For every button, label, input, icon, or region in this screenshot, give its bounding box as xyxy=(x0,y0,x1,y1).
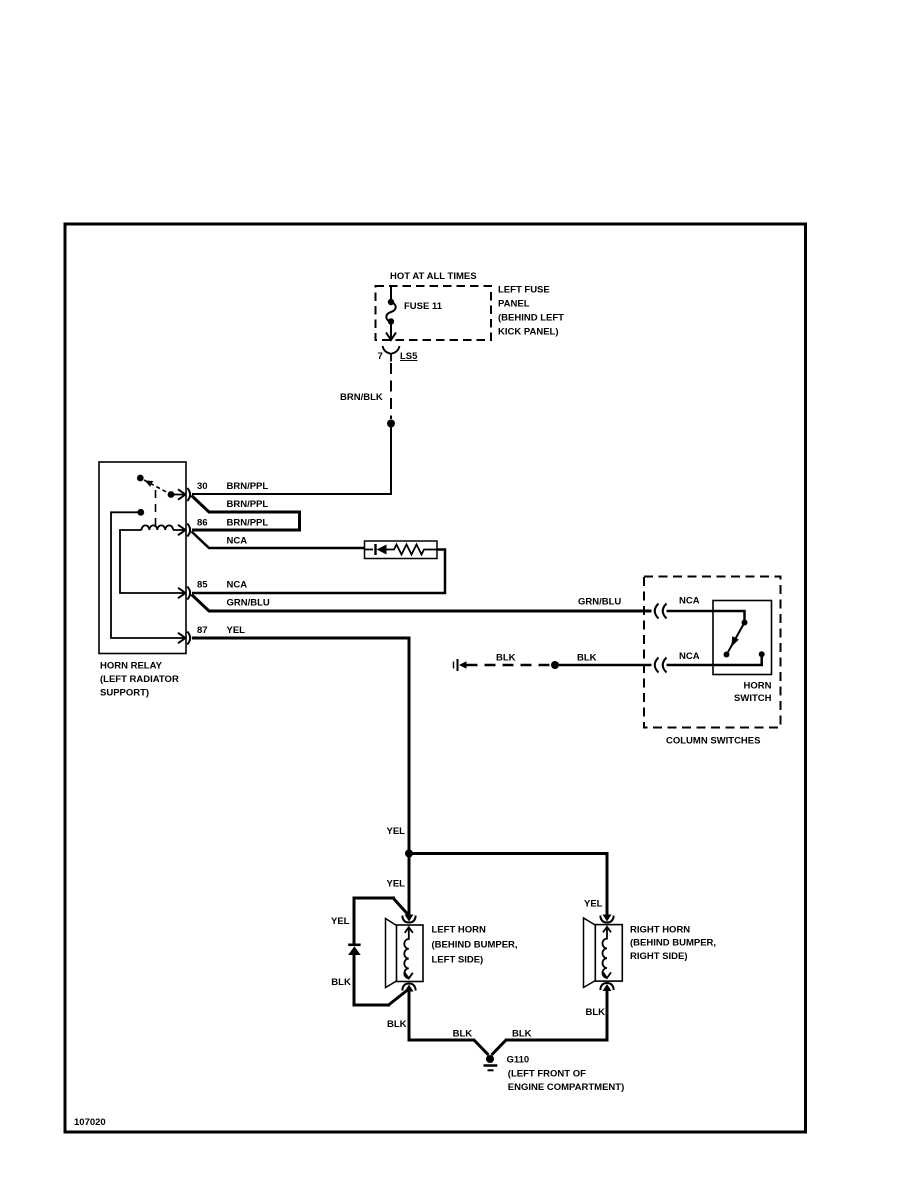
wire BLK to horn switch xyxy=(559,664,652,667)
wire fuse output xyxy=(390,324,392,338)
wire switch to pin 30 xyxy=(171,494,184,496)
svg-text:G110: G110 xyxy=(507,1055,530,1066)
svg-text:BLK: BLK xyxy=(577,653,597,664)
wire YEL pin 87 to horns xyxy=(192,638,409,854)
horn switch blade with arrow xyxy=(728,623,745,653)
horn switch bottom-left contact xyxy=(724,652,730,658)
fuse FUSE 11 element xyxy=(386,302,395,322)
svg-text:(BEHIND LEFT: (BEHIND LEFT xyxy=(498,313,564,324)
wire YEL branch to diode xyxy=(354,898,408,944)
node fuse bottom terminal xyxy=(388,318,394,324)
svg-text:BRN/PPL: BRN/PPL xyxy=(227,518,269,529)
svg-text:LEFT HORN: LEFT HORN xyxy=(432,925,486,936)
fuse panel box (dashed) xyxy=(376,286,492,340)
connector GRN/BLU into column switches xyxy=(655,604,667,619)
svg-text:(LEFT RADIATOR: (LEFT RADIATOR xyxy=(100,674,179,685)
diode CR1 in module xyxy=(365,544,387,555)
svg-text:LEFT SIDE): LEFT SIDE) xyxy=(432,955,484,966)
pin 87 arrow xyxy=(178,633,185,643)
wire BRN/BLK dashed xyxy=(390,363,392,419)
relay switch fixed contact xyxy=(137,475,144,482)
svg-text:BLK: BLK xyxy=(331,977,351,988)
diode CR2 across left horn xyxy=(348,945,361,955)
svg-text:YEL: YEL xyxy=(227,625,246,636)
relay armature link (dashed) xyxy=(155,490,157,527)
svg-text:BRN/BLK: BRN/BLK xyxy=(340,392,383,403)
node splice on BRN/BLK xyxy=(387,420,395,428)
svg-text:FUSE 11: FUSE 11 xyxy=(404,301,443,312)
coil L1 relay winding xyxy=(142,525,185,530)
wire YEL junction to right horn xyxy=(409,854,607,918)
arrow fuse output xyxy=(386,333,396,341)
svg-text:SUPPORT): SUPPORT) xyxy=(100,688,149,699)
horn switch S2 box xyxy=(713,601,772,675)
node relay switch to pin 30 xyxy=(168,491,175,498)
pin 86 arrow xyxy=(178,525,185,535)
svg-text:(LEFT FRONT OF: (LEFT FRONT OF xyxy=(508,1069,586,1080)
left horn LS body xyxy=(397,925,424,982)
wire BLK right horn to ground xyxy=(492,1040,609,1056)
svg-text:BLK: BLK xyxy=(453,1029,473,1040)
svg-text:BLK: BLK xyxy=(586,1007,606,1018)
svg-text:BRN/PPL: BRN/PPL xyxy=(227,481,269,492)
wire YEL junction to left horn xyxy=(408,855,411,916)
connector BLK into column switches xyxy=(655,658,667,673)
svg-text:YEL: YEL xyxy=(387,879,406,890)
right horn socket bottom xyxy=(600,983,613,990)
svg-text:YEL: YEL xyxy=(387,826,406,837)
node YEL junction xyxy=(405,850,413,858)
svg-text:BLK: BLK xyxy=(512,1029,532,1040)
pin 30 arrow xyxy=(178,489,185,499)
left horn terminal arrow top xyxy=(405,915,414,922)
relay switch movable contact (dashed blade with arrow) xyxy=(144,480,171,495)
wire BLK right horn down xyxy=(606,990,609,1041)
wire fuse feed inside panel xyxy=(390,287,392,300)
wire BRN/PPL loop 30 to 86 xyxy=(192,496,300,531)
pin 85 socket xyxy=(187,587,190,600)
resistor R1 in module xyxy=(387,545,438,555)
wire NCA horn switch bottom xyxy=(667,657,762,665)
svg-text:HOT AT ALL TIMES: HOT AT ALL TIMES xyxy=(390,271,477,282)
svg-text:HORN RELAY: HORN RELAY xyxy=(100,661,163,672)
svg-text:SWITCH: SWITCH xyxy=(734,693,772,704)
svg-text:COLUMN SWITCHES: COLUMN SWITCHES xyxy=(666,736,760,747)
wire BLK diode branch xyxy=(354,955,408,1006)
svg-text:NCA: NCA xyxy=(679,596,700,607)
svg-text:ENGINE COMPARTMENT): ENGINE COMPARTMENT) xyxy=(508,1082,624,1093)
svg-text:RIGHT SIDE): RIGHT SIDE) xyxy=(630,951,688,962)
svg-text:7: 7 xyxy=(378,351,383,362)
svg-text:85: 85 xyxy=(197,580,208,591)
left horn socket bottom xyxy=(402,984,415,991)
horn switch bottom-right contact xyxy=(759,651,765,657)
svg-text:(BEHIND BUMPER,: (BEHIND BUMPER, xyxy=(432,940,518,951)
svg-text:(BEHIND BUMPER,: (BEHIND BUMPER, xyxy=(630,938,716,949)
right horn terminal arrow bottom xyxy=(603,984,612,991)
svg-text:GRN/BLU: GRN/BLU xyxy=(578,597,621,608)
pin 30 socket xyxy=(187,488,190,501)
node relay common terminal xyxy=(137,509,144,516)
wire NCA to horn switch top xyxy=(667,611,745,620)
column switches box (dashed) xyxy=(644,577,781,728)
svg-text:30: 30 xyxy=(197,481,208,492)
wire module to pin 85 NCA xyxy=(192,550,445,594)
pin 86 socket xyxy=(187,524,190,537)
svg-text:LS5: LS5 xyxy=(400,351,418,362)
connector LS5 pin 7 xyxy=(383,346,400,362)
svg-text:86: 86 xyxy=(197,518,208,529)
wire NCA from pin 86 to suppression module xyxy=(192,532,365,549)
left horn cone xyxy=(386,919,397,988)
svg-text:107020: 107020 xyxy=(74,1117,106,1128)
right horn coil xyxy=(603,927,612,978)
svg-text:YEL: YEL xyxy=(584,899,603,910)
svg-text:RIGHT HORN: RIGHT HORN xyxy=(630,925,690,936)
right horn cone xyxy=(584,918,596,988)
right horn terminal arrow top xyxy=(603,915,612,922)
svg-text:LEFT FUSE: LEFT FUSE xyxy=(498,285,550,296)
ground splice S1 xyxy=(454,659,467,671)
pin 85 arrow xyxy=(178,588,185,598)
svg-text:HORN: HORN xyxy=(744,681,772,692)
horn relay U1 box xyxy=(99,462,186,654)
svg-text:KICK PANEL): KICK PANEL) xyxy=(498,327,559,338)
svg-text:PANEL: PANEL xyxy=(498,299,530,310)
svg-text:GRN/BLU: GRN/BLU xyxy=(227,598,270,609)
svg-text:NCA: NCA xyxy=(227,580,248,591)
wire coil to pin 85 xyxy=(120,530,184,593)
svg-text:BRN/PPL: BRN/PPL xyxy=(227,499,269,510)
wire fuse to relay pin 30 xyxy=(192,426,391,494)
horn switch top contact xyxy=(742,620,748,626)
svg-text:NCA: NCA xyxy=(227,536,248,547)
svg-text:BLK: BLK xyxy=(496,653,516,664)
ground G110 xyxy=(484,1055,498,1070)
node BLK splice xyxy=(551,661,559,669)
right horn LS body xyxy=(595,925,622,982)
right horn socket top xyxy=(600,916,613,923)
wire BLK left horn to ground xyxy=(408,1040,489,1056)
node fuse top terminal xyxy=(388,299,394,305)
pin 87 socket xyxy=(187,632,190,645)
wire BLK left horn down xyxy=(408,990,411,1040)
left horn socket top xyxy=(402,916,415,923)
svg-text:BLK: BLK xyxy=(387,1019,407,1030)
svg-text:87: 87 xyxy=(197,625,208,636)
wire BLK dashed from splice xyxy=(467,664,551,667)
svg-text:NCA: NCA xyxy=(679,651,700,662)
wire GRN/BLU pin 85 to horn switch xyxy=(192,595,652,612)
suppression diode-resistor module box xyxy=(365,541,438,559)
left horn terminal arrow bottom xyxy=(405,985,414,992)
left horn coil xyxy=(404,927,413,978)
wire common to pin 87 xyxy=(111,512,184,638)
svg-text:YEL: YEL xyxy=(331,916,350,927)
